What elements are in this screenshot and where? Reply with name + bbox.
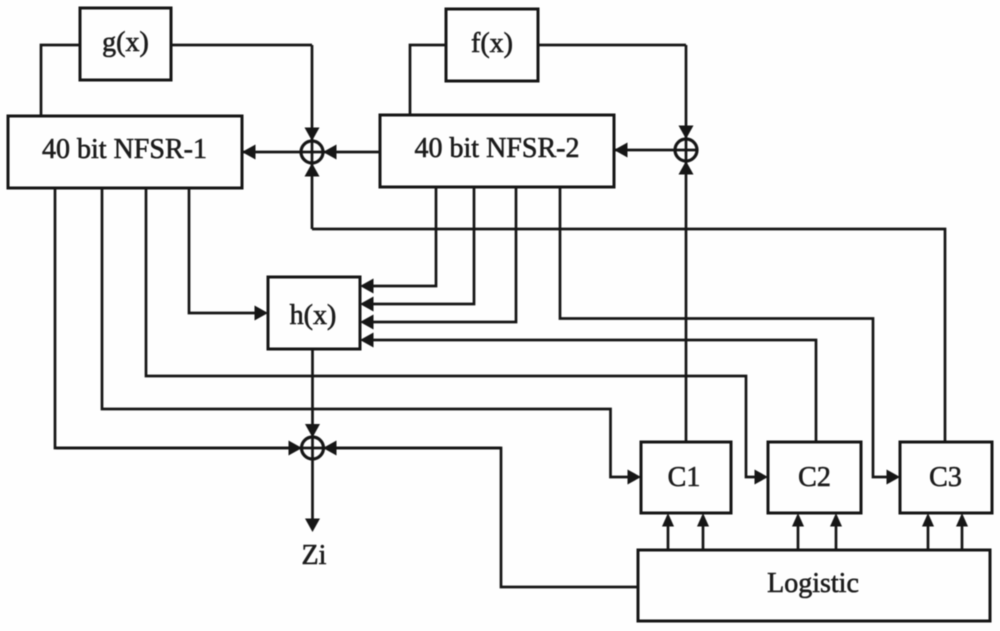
arrowhead Logistic-C3 b [956,513,968,527]
arrowhead Logistic-C1 b [697,513,709,527]
box h(x) [268,277,360,349]
wire NFSR-2 out4 to C3 left [560,187,888,477]
svg-text:g(x): g(x) [102,27,149,58]
arrowhead into XOR1 bottom [305,163,320,177]
arrowhead into XOR3 right [323,441,337,456]
box C2 [768,442,861,513]
svg-text:40 bit NFSR-1: 40 bit NFSR-1 [42,134,207,165]
svg-text:C1: C1 [668,462,701,493]
wire Logistic to C1 arrow a [667,526,670,550]
box NFSR-1 [8,116,242,188]
wire C2 top to h(x) right input4 [372,340,816,442]
wire NFSR-1 out4 to h(x) left [189,188,256,313]
arrowhead into h(x) right 3 [360,315,374,330]
box NFSR-2 [380,115,614,187]
svg-text:Logistic: Logistic [767,568,859,599]
wire NFSR-1 out1 to XOR3 left [55,188,293,448]
wire XOR1 vertical through (g feed, bottom feed from C3 line) [311,45,314,229]
arrowhead Logistic-C2 b [830,513,842,527]
wire XOR2 horizontal output into NFSR-2 [614,149,697,152]
arrowhead into XOR2 bottom [679,161,694,175]
arrowhead into h(x) left [255,306,269,321]
arrowhead output Zi [305,519,320,533]
arrowhead Logistic-C2 a [792,513,804,527]
arrowhead into h(x) right 4 [360,333,374,348]
arrowhead into XOR2 top [679,126,694,140]
arrowhead into NFSR-1 right [242,145,256,160]
wire NFSR-2 out1 to h(x) right input1 [372,187,436,286]
svg-text:h(x): h(x) [290,300,337,331]
arrowhead into C2 left [755,470,769,485]
wire h(x) bottom to XOR3 and output Zi [311,349,314,520]
wire XOR2 vertical C1 top to XOR2 and f feed [685,45,688,442]
wire XOR1 horizontal (NFSR-2 out to NFSR-1 in) [242,151,380,154]
XOR1 circle (left adder) [301,141,323,163]
wire f(x) left to NFSR-2 top [410,45,446,115]
wire g(x) left to NFSR-1 top [41,45,80,116]
svg-text:C2: C2 [798,462,831,493]
wire NFSR-2 out2 to h(x) right input2 [372,187,474,304]
svg-text:C3: C3 [929,462,962,493]
svg-text:f(x): f(x) [471,28,513,59]
wire Logistic to C1 arrow b [702,526,705,550]
wire Logistic to C2 arrow a [797,526,800,550]
arrowhead into C1 left [628,470,642,485]
wire Logistic to C2 arrow b [835,526,838,550]
wire g(x) right to XOR1 top [171,44,312,47]
arrowhead into h(x) right 2 [360,297,374,312]
XOR3 circle (output adder) [302,437,324,459]
arrowhead into NFSR-2 right [614,143,628,158]
arrowhead into XOR1 top [305,128,320,142]
XOR2 circle (right adder) [675,139,697,161]
arrowhead into XOR3 top [305,424,320,438]
svg-text:40 bit NFSR-2: 40 bit NFSR-2 [415,133,580,164]
wire NFSR-1 out3 to C2 left [146,188,756,477]
arrowhead into XOR3 left [289,441,303,456]
arrowhead into C3 left [887,470,901,485]
wire Logistic to C3 arrow a [927,526,930,550]
wire NFSR-2 out3 to h(x) right input3 [372,187,516,322]
wire C3 top to XOR1 bottom (horizontal bus y=229) [312,229,945,442]
box C3 [900,442,992,513]
arrowhead Logistic-C3 a [922,513,934,527]
wire NFSR-1 out2 to C1 left [102,188,629,477]
wire f(x) right to XOR2 top [538,44,686,47]
svg-text:Zi: Zi [302,540,327,571]
wire Logistic to C3 arrow b [961,526,964,550]
box Logistic [638,550,990,621]
arrowhead into h(x) right 1 [360,279,374,294]
box f(x) [446,9,538,81]
wire XOR3 horizontal [56,447,501,450]
box C1 [641,442,731,513]
wire Logistic left to XOR3 right [335,448,638,587]
arrowhead Logistic-C1 a [662,513,674,527]
arrowhead into XOR1 right [323,145,337,160]
box g(x) [80,8,171,80]
